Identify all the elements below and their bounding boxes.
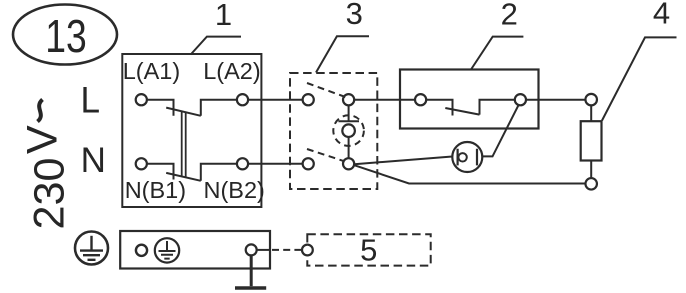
svg-text:V: V xyxy=(18,125,66,154)
svg-text:13: 13 xyxy=(45,10,87,62)
svg-text:230: 230 xyxy=(26,158,74,230)
svg-text:L(A1): L(A1) xyxy=(123,58,180,84)
svg-text:N: N xyxy=(81,141,106,180)
svg-text:5: 5 xyxy=(360,232,377,267)
svg-text:N(B2): N(B2) xyxy=(204,177,265,203)
svg-text:L: L xyxy=(81,79,101,120)
svg-text:2: 2 xyxy=(501,0,518,31)
svg-text:1: 1 xyxy=(215,0,232,32)
svg-text:N(B1): N(B1) xyxy=(125,177,186,203)
svg-text:L(A2): L(A2) xyxy=(203,58,260,84)
svg-text:3: 3 xyxy=(346,0,363,31)
svg-text:4: 4 xyxy=(653,0,670,31)
